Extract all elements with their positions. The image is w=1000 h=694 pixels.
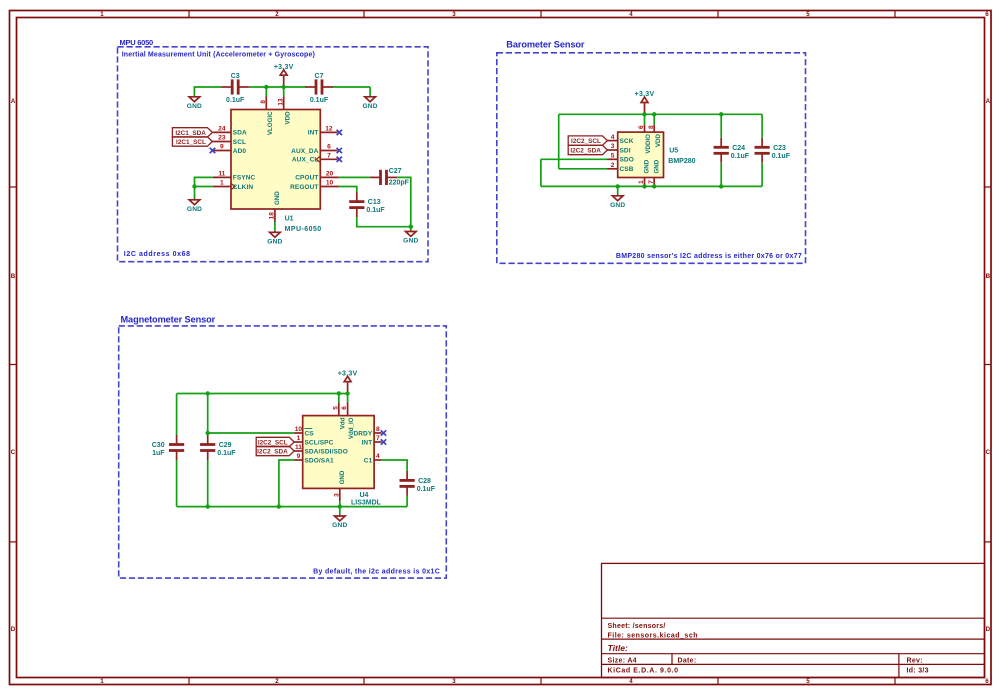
wire: [249, 86, 306, 88]
svg-text:1: 1: [100, 11, 104, 18]
hierarchical label I2C1_SCL: [172, 137, 212, 146]
U4 pin 9 SDO/SA1: [294, 453, 334, 464]
svg-text:GND: GND: [362, 103, 377, 110]
junction C24 top: [719, 112, 723, 116]
U4 pin 11 SDA/SDI/SDO: [294, 444, 348, 455]
hierarchical label I2C2_SCL: [568, 136, 607, 145]
svg-text:1uF: 1uF: [152, 450, 165, 457]
capacitor C30: [152, 435, 184, 460]
U1 pin 13 VDD: [277, 97, 291, 125]
svg-text:3: 3: [452, 678, 456, 685]
section box: MPU 6050: [118, 38, 429, 262]
junction C27/C13 gnd: [409, 225, 413, 229]
no-connect: [210, 148, 215, 153]
svg-text:C1: C1: [364, 457, 373, 464]
svg-text:1: 1: [220, 180, 224, 187]
svg-text:VLOGIC: VLOGIC: [267, 111, 274, 135]
svg-text:24: 24: [218, 126, 226, 133]
svg-text:10: 10: [295, 426, 303, 433]
section box: Magnetometer Sensor: [119, 315, 447, 579]
svg-text:D: D: [11, 626, 16, 633]
svg-text:Vdd_IO: Vdd_IO: [348, 417, 355, 439]
wire: [653, 114, 655, 124]
svg-text:U4: U4: [360, 492, 369, 499]
ground: [332, 507, 347, 529]
junction gnd pin1: [642, 184, 646, 188]
capacitor C23: [755, 138, 791, 163]
wire: [541, 158, 608, 160]
svg-text:GND: GND: [187, 103, 202, 110]
no-connect: [381, 430, 386, 435]
ground: [362, 92, 377, 110]
svg-text:Date:: Date:: [678, 658, 697, 665]
svg-text:3: 3: [611, 143, 615, 150]
svg-text:8: 8: [376, 426, 380, 433]
svg-text:DRDY: DRDY: [353, 430, 372, 437]
junction gnd pin7: [652, 184, 656, 188]
U4 pin 3 GND: [333, 470, 346, 501]
hierarchical label I2C2_SDA: [568, 145, 607, 154]
svg-text:C30: C30: [152, 442, 165, 449]
wire: [369, 87, 371, 92]
wire: [720, 163, 722, 186]
U5 pin 2 CSB: [607, 162, 633, 173]
wire: [397, 177, 411, 226]
svg-text:Magnetometer Sensor: Magnetometer Sensor: [121, 315, 216, 325]
svg-text:C7: C7: [315, 73, 324, 80]
no-connect: [381, 439, 386, 444]
svg-text:SDI: SDI: [620, 147, 631, 154]
svg-text:I2C2_SDA: I2C2_SDA: [570, 147, 601, 154]
capacitor C24: [714, 138, 750, 163]
svg-text:By default, the i2c address is: By default, the i2c address is 0x1C: [313, 568, 440, 575]
svg-text:2: 2: [611, 162, 615, 169]
junction C29 top: [206, 391, 210, 395]
svg-text:AD0: AD0: [233, 148, 247, 155]
svg-text:C13: C13: [368, 199, 381, 206]
svg-text:0.1uF: 0.1uF: [772, 153, 791, 160]
wire: [541, 185, 762, 187]
svg-text:BMP280 sensor's I2C address is: BMP280 sensor's I2C address is either 0x…: [616, 253, 802, 260]
wire: [559, 168, 608, 170]
svg-text:KiCad E.D.A. 9.0.0: KiCad E.D.A. 9.0.0: [608, 668, 679, 675]
wire: [274, 222, 276, 228]
svg-text:Inertial Measurement Unit (Acc: Inertial Measurement Unit (Accelerometer…: [122, 51, 315, 58]
svg-text:+3.3V: +3.3V: [635, 91, 655, 98]
svg-text:FSYNC: FSYNC: [233, 175, 256, 182]
wire: [347, 394, 349, 403]
svg-text:5: 5: [806, 11, 810, 18]
wire: [644, 114, 646, 124]
U1 pin 11 FSYNC: [213, 171, 256, 182]
svg-text:AUX_CL: AUX_CL: [292, 157, 319, 164]
svg-text:REGOUT: REGOUT: [290, 184, 318, 191]
svg-text:Id: 3/3: Id: 3/3: [907, 668, 929, 675]
svg-text:D: D: [986, 626, 991, 633]
svg-text:C: C: [11, 449, 16, 456]
junction VDD rail: [282, 85, 286, 89]
wire: [195, 186, 213, 188]
svg-text:VDD: VDD: [655, 133, 662, 147]
wire: [540, 159, 542, 186]
svg-text:0.1uF: 0.1uF: [417, 486, 436, 493]
wire: [283, 87, 285, 97]
hierarchical label I2C2_SDA: [256, 446, 294, 455]
U4 pin 5 Vdd: [332, 403, 346, 430]
svg-text:AUX_DA: AUX_DA: [291, 148, 319, 155]
wire: [720, 114, 722, 137]
U1 pin 8 VLOGIC: [260, 97, 274, 136]
wire: [265, 87, 267, 97]
no-connect: [337, 157, 342, 162]
svg-text:20: 20: [326, 171, 334, 178]
U4 pin 4 C1: [364, 453, 382, 464]
U5 pin 3 SDI: [607, 143, 630, 154]
svg-text:CLKIN: CLKIN: [233, 184, 254, 191]
svg-text:A: A: [11, 98, 16, 105]
svg-text:Vdd: Vdd: [339, 417, 346, 429]
svg-text:0.1uF: 0.1uF: [366, 207, 385, 214]
svg-text:GND: GND: [332, 522, 347, 529]
capacitor C27: [370, 168, 410, 186]
ground: [187, 195, 202, 213]
svg-text:C3: C3: [231, 73, 240, 80]
svg-text:Rev:: Rev:: [907, 658, 923, 665]
svg-text:0.1uF: 0.1uF: [226, 97, 245, 104]
svg-text:CSB: CSB: [620, 166, 634, 173]
svg-text:BMP280: BMP280: [668, 158, 695, 165]
wire: [176, 394, 178, 436]
U4 pin 7 INT: [362, 435, 382, 446]
svg-text:GND: GND: [610, 202, 625, 209]
svg-text:11: 11: [218, 171, 225, 178]
junction +3.3V baro: [642, 112, 646, 116]
svg-text:8: 8: [648, 125, 655, 129]
op-amp U5 BMP280 body: [618, 132, 664, 177]
wire: [338, 394, 340, 403]
wire: [382, 460, 408, 471]
svg-text:MPU 6050: MPU 6050: [120, 38, 154, 47]
junction SDO bot: [277, 504, 281, 508]
U5 pin 8 VDD: [648, 125, 662, 147]
wire: [207, 460, 209, 507]
U1 pin 12 INT: [308, 126, 338, 137]
svg-text:MPU-6050: MPU-6050: [285, 226, 322, 233]
ground: [187, 92, 202, 110]
svg-text:I2C2_SDA: I2C2_SDA: [257, 448, 288, 455]
capacitor C7: [305, 73, 332, 104]
svg-text:10: 10: [326, 180, 334, 187]
svg-text:B: B: [986, 273, 991, 280]
svg-text:I2C2_SCL: I2C2_SCL: [571, 138, 601, 145]
svg-text:4: 4: [629, 678, 633, 685]
capacitor C29: [200, 435, 236, 460]
junction Vdd_IO: [345, 391, 349, 395]
svg-text:GND: GND: [403, 238, 418, 245]
wire: [176, 460, 178, 507]
hierarchical label I2C2_SCL: [256, 437, 294, 446]
junction Vdd: [337, 391, 341, 395]
svg-text:5: 5: [806, 678, 810, 685]
wire: [177, 393, 348, 395]
wire: [406, 496, 408, 507]
svg-text:B: B: [11, 273, 16, 280]
svg-text:7: 7: [327, 153, 331, 160]
title block: [602, 563, 985, 677]
wire: [195, 177, 213, 195]
power +3.3V: [274, 64, 294, 87]
svg-text:Size: A4: Size: A4: [608, 658, 637, 665]
power +3.3V: [338, 370, 358, 393]
svg-text:13: 13: [277, 98, 284, 106]
svg-text:C29: C29: [219, 442, 232, 449]
svg-text:I2C address 0x68: I2C address 0x68: [124, 251, 191, 258]
svg-text:U1: U1: [285, 215, 294, 222]
svg-text:VDDIO: VDDIO: [645, 134, 652, 154]
svg-text:VDD: VDD: [284, 111, 291, 125]
U5 pin 7 GND: [648, 159, 661, 186]
U1 pin 1 CLKIN: [213, 180, 254, 191]
svg-text:GND: GND: [339, 470, 346, 484]
wire: [339, 176, 370, 178]
junction VLOGIC rail: [264, 85, 268, 89]
svg-text:SDA/SDI/SDO: SDA/SDI/SDO: [305, 448, 348, 455]
svg-text:SDO: SDO: [620, 157, 634, 164]
U1 pin 9 AD0: [213, 144, 247, 155]
svg-text:SCL: SCL: [233, 139, 246, 146]
ground: [610, 186, 625, 209]
wire: [339, 187, 357, 193]
svg-text:220pF: 220pF: [389, 180, 410, 187]
svg-text:I2C2_SCL: I2C2_SCL: [258, 439, 288, 446]
svg-text:0.1uF: 0.1uF: [731, 153, 750, 160]
svg-text:3: 3: [333, 493, 340, 497]
svg-text:7: 7: [648, 180, 655, 184]
svg-text:C27: C27: [389, 168, 402, 175]
svg-text:CS: CS: [305, 430, 315, 437]
op-amp U1 MPU-6050 body: [231, 110, 320, 210]
svg-text:7: 7: [376, 435, 380, 442]
svg-text:5: 5: [332, 406, 339, 410]
U1 pin 18 GND: [269, 191, 282, 222]
svg-text:INT: INT: [308, 130, 319, 137]
svg-text:GND: GND: [267, 238, 282, 245]
svg-text:C24: C24: [732, 145, 745, 152]
U5 pin 1 GND: [638, 159, 651, 186]
no-connect: [337, 130, 342, 135]
wire: [558, 114, 560, 169]
U4 pin 8 DRDY: [353, 426, 381, 437]
junction CLKIN/FSYNC: [192, 184, 196, 188]
svg-text:SCK: SCK: [620, 138, 634, 145]
svg-text:4: 4: [629, 11, 633, 18]
power +3.3V: [635, 91, 655, 114]
svg-text:A: A: [986, 98, 991, 105]
junction CS tap: [206, 431, 210, 435]
wire: [194, 87, 221, 92]
junction C29 bot: [206, 504, 210, 508]
svg-text:8: 8: [260, 100, 267, 104]
svg-text:LIS3MDL: LIS3MDL: [351, 500, 382, 507]
ground: [403, 227, 418, 245]
svg-text:I2C1_SCL: I2C1_SCL: [176, 139, 206, 146]
svg-text:C23: C23: [773, 145, 786, 152]
U1 pin 20 CPOUT: [295, 171, 339, 182]
ground: [267, 228, 282, 246]
wire: [332, 86, 370, 88]
hierarchical label I2C1_SDA: [172, 128, 212, 137]
svg-text:12: 12: [325, 126, 333, 133]
junction VDD baro: [652, 112, 656, 116]
svg-text:4: 4: [376, 453, 380, 460]
svg-text:SCL/SPC: SCL/SPC: [305, 439, 334, 446]
svg-text:1: 1: [638, 180, 645, 184]
junction gnd tap: [338, 504, 342, 508]
svg-text:9: 9: [220, 144, 224, 151]
wire: [559, 113, 762, 115]
wire: [339, 501, 341, 506]
wire: [761, 114, 763, 137]
svg-text:23: 23: [218, 135, 226, 142]
svg-text:2: 2: [275, 678, 279, 685]
junction gnd baro: [616, 184, 620, 188]
svg-text:0.1uF: 0.1uF: [217, 450, 236, 457]
svg-text:9: 9: [297, 453, 301, 460]
wire: [279, 460, 295, 507]
svg-text:+3.3V: +3.3V: [338, 370, 358, 377]
U1 pin 7 AUX_CL: [292, 153, 338, 164]
svg-text:0.1uF: 0.1uF: [310, 97, 329, 104]
svg-text:INT: INT: [362, 439, 373, 446]
svg-text:6: 6: [327, 144, 331, 151]
svg-text:C28: C28: [418, 478, 431, 485]
svg-text:11: 11: [295, 444, 302, 451]
wire: [207, 394, 209, 436]
capacitor C13: [349, 192, 385, 217]
U5 pin 5 SDO: [607, 153, 633, 164]
U1 pin 10 REGOUT: [290, 180, 339, 191]
junction C24 bottom: [719, 184, 723, 188]
svg-text:SDA: SDA: [233, 130, 247, 137]
svg-text:1: 1: [100, 678, 104, 685]
wire: [208, 432, 295, 434]
U4 pin 1 SCL/SPC: [294, 435, 333, 446]
svg-text:SDO/SA1: SDO/SA1: [305, 457, 335, 464]
svg-text:1: 1: [297, 435, 301, 442]
U1 pin 23 SCL: [213, 135, 246, 146]
svg-text:C: C: [986, 449, 991, 456]
capacitor C3: [222, 73, 249, 104]
svg-text:Title:: Title:: [608, 643, 629, 653]
no-connect: [337, 148, 342, 153]
U5 pin 4 SCK: [607, 134, 633, 145]
svg-text:Sheet: /sensors/: Sheet: /sensors/: [608, 623, 666, 630]
capacitor C28: [400, 471, 436, 496]
svg-text:U5: U5: [669, 148, 678, 155]
wire: [357, 217, 411, 227]
svg-text:18: 18: [269, 212, 276, 220]
U4 pin 10 CS: [294, 426, 314, 437]
svg-text:3: 3: [452, 11, 456, 18]
section box: Barometer Sensor: [497, 40, 806, 264]
svg-text:GND: GND: [644, 159, 651, 173]
svg-text:4: 4: [611, 134, 615, 141]
svg-text:6: 6: [638, 125, 645, 129]
U5 pin 6 VDDIO: [638, 125, 652, 154]
U1 pin 6 AUX_DA: [291, 144, 337, 155]
svg-text:CPOUT: CPOUT: [295, 175, 318, 182]
svg-text:File: sensors.kicad_sch: File: sensors.kicad_sch: [608, 633, 698, 640]
wire: [761, 163, 763, 186]
svg-text:5: 5: [611, 153, 615, 160]
svg-text:+3.3V: +3.3V: [274, 64, 294, 71]
U1 pin 24 SDA: [213, 126, 247, 137]
svg-text:GND: GND: [274, 191, 281, 205]
svg-text:GND: GND: [653, 159, 660, 173]
U4 pin 6 Vdd_IO: [341, 403, 355, 440]
svg-text:Barometer Sensor: Barometer Sensor: [506, 40, 585, 50]
wire: [177, 506, 408, 508]
svg-text:2: 2: [275, 11, 279, 18]
svg-text:I2C1_SDA: I2C1_SDA: [175, 130, 206, 137]
svg-text:6: 6: [985, 678, 989, 685]
svg-text:GND: GND: [187, 206, 202, 213]
svg-text:6: 6: [341, 406, 348, 410]
op-amp U4 LIS3MDL body: [303, 416, 374, 489]
svg-text:6: 6: [985, 11, 989, 18]
